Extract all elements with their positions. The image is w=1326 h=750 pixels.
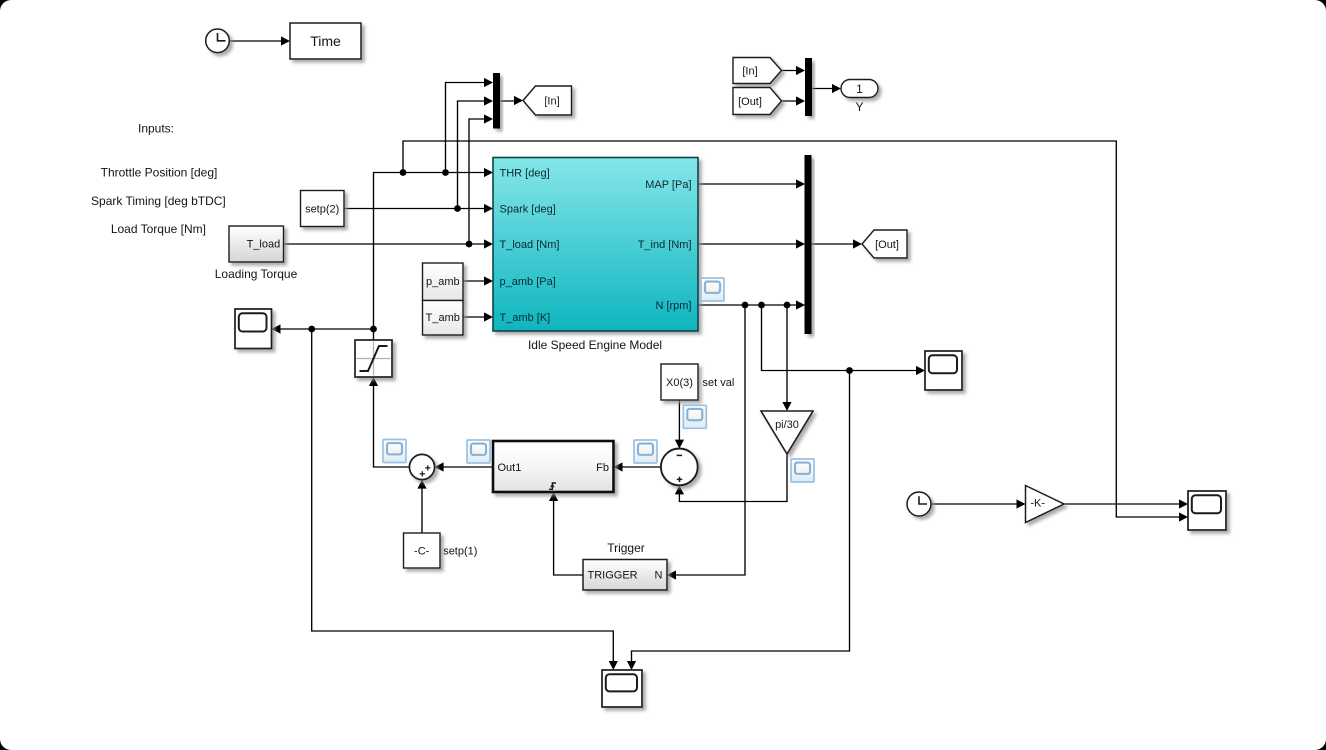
- node N junction 3: [784, 302, 791, 309]
- wire pi/30 to Sum2 plus input: [679, 454, 787, 502]
- wire N rpm to Mux3: [698, 304, 803, 306]
- wire MAP to Mux3: [698, 183, 803, 185]
- block Time display: [290, 23, 361, 59]
- svg-text:Idle Speed Engine Model: Idle Speed Engine Model: [528, 338, 662, 352]
- subsystem TRIGGER: [583, 560, 667, 591]
- wire throttle down to bottom scope: [312, 329, 614, 668]
- mux Mux2: [805, 58, 812, 116]
- wire Mux3 to Goto [Out]: [812, 243, 861, 245]
- viewer badge 1: [383, 440, 406, 463]
- wire p_amb to engine: [463, 280, 491, 282]
- svg-text:-K-: -K-: [1030, 498, 1045, 510]
- mux Mux3: [805, 155, 812, 334]
- node throttle-to-mux junction: [442, 169, 449, 176]
- svg-text:-C-: -C-: [414, 546, 430, 558]
- viewer badge 2: [467, 440, 490, 463]
- wire saturation output up to THR input: [374, 173, 492, 341]
- wire gain -K- to Scope3: [1064, 503, 1186, 505]
- svg-text:[Out]: [Out]: [738, 96, 762, 108]
- node spark-to-mux junction: [454, 205, 461, 212]
- wire Mux1 to Goto [In]: [500, 100, 521, 102]
- wire tload to Mux1 input3: [469, 119, 491, 244]
- wire branch to Scope1: [273, 328, 374, 330]
- subsystem Idle Speed Engine Model: [493, 158, 698, 332]
- mux Mux1: [493, 73, 500, 129]
- svg-text:Spark [deg]: Spark [deg]: [500, 203, 556, 215]
- svg-text:T_load: T_load: [247, 238, 281, 250]
- constant X0(3): [661, 364, 698, 400]
- svg-text:setp(2): setp(2): [305, 204, 339, 216]
- svg-text:Throttle Position [deg]: Throttle Position [deg]: [101, 166, 218, 180]
- wire X0(3) to Sum2 minus input: [678, 400, 680, 447]
- node throttle-to-bottom junction: [308, 326, 315, 333]
- scope Scope1: [235, 309, 272, 349]
- from tag [In]: [733, 58, 782, 84]
- wire setp(2) to Spark input: [344, 208, 491, 210]
- constant T_amb: [423, 301, 464, 336]
- wire Mux2 to outport Y: [812, 88, 839, 90]
- node N junction 1: [742, 302, 749, 309]
- gain -K-: [1026, 486, 1065, 523]
- wire throttle to Mux1 input1: [446, 83, 492, 173]
- wire Out1 to Sum1: [437, 466, 493, 468]
- svg-text:Spark Timing [deg bTDC]: Spark Timing [deg bTDC]: [91, 194, 226, 208]
- node tload-to-mux junction: [466, 241, 473, 248]
- scope Scope4 bottom: [602, 670, 642, 707]
- svg-text:Inputs:: Inputs:: [138, 122, 174, 136]
- wire N to Scope2: [762, 305, 924, 371]
- wire N down to bottom scope: [632, 371, 850, 669]
- wire clock2 to gain -K-: [931, 503, 1024, 505]
- saturation block: [355, 340, 392, 377]
- svg-text:T_ind [Nm]: T_ind [Nm]: [638, 239, 692, 251]
- viewer badge 3: [634, 440, 657, 463]
- clock Clock2: [907, 492, 931, 516]
- node N-scope branch junction: [846, 367, 853, 374]
- svg-text:[Out]: [Out]: [875, 239, 899, 251]
- wire clock1 to Time: [229, 40, 288, 42]
- svg-text:T_amb [K]: T_amb [K]: [500, 312, 551, 324]
- viewer badge 4: [683, 405, 706, 428]
- svg-text:N: N: [655, 570, 663, 582]
- constant p_amb: [423, 263, 464, 301]
- svg-text:setp(1): setp(1): [443, 546, 477, 558]
- wire -C- to Sum1 plus input: [421, 482, 423, 533]
- svg-text:TRIGGER: TRIGGER: [588, 570, 638, 582]
- goto tag [Out]: [862, 230, 907, 258]
- svg-text:1: 1: [856, 82, 863, 96]
- sum Sum2: [661, 449, 698, 486]
- sum Sum1: [409, 454, 434, 479]
- wire From [In] to Mux2: [782, 70, 804, 72]
- wire T_load to T_load input: [284, 243, 492, 245]
- svg-text:[In]: [In]: [742, 66, 757, 78]
- from tag [Out]: [733, 88, 782, 115]
- svg-text:set val: set val: [703, 377, 735, 389]
- svg-text:X0(3): X0(3): [666, 377, 693, 389]
- viewer badge 6: [701, 278, 724, 301]
- outport Y: [841, 80, 878, 98]
- svg-text:Trigger: Trigger: [607, 541, 645, 555]
- subsystem controller Out1/Fb: [493, 441, 614, 492]
- wire Sum1 to saturation: [374, 379, 410, 467]
- svg-text:N [rpm]: N [rpm]: [655, 300, 691, 312]
- svg-text:Out1: Out1: [498, 462, 522, 474]
- node N junction 2: [758, 302, 765, 309]
- svg-text:THR [deg]: THR [deg]: [500, 167, 550, 179]
- wire spark to Mux1 input2: [458, 101, 492, 209]
- svg-text:Time: Time: [310, 33, 341, 49]
- node saturation-output junction: [370, 326, 377, 333]
- trigger port glyph: [549, 483, 556, 489]
- gain pi/30: [761, 411, 813, 454]
- svg-text:[In]: [In]: [544, 96, 559, 108]
- block T_load (Loading Torque): [229, 226, 284, 262]
- svg-text:MAP [Pa]: MAP [Pa]: [645, 179, 691, 191]
- svg-text:p_amb [Pa]: p_amb [Pa]: [500, 276, 556, 288]
- svg-text:Loading Torque: Loading Torque: [215, 267, 298, 281]
- node throttle feedback junction: [400, 169, 407, 176]
- svg-text:Load Torque [Nm]: Load Torque [Nm]: [111, 222, 206, 236]
- wire From [Out] to Mux2: [782, 100, 804, 102]
- svg-text:T_load [Nm]: T_load [Nm]: [500, 239, 560, 251]
- svg-text:Y: Y: [855, 100, 863, 114]
- wire Sum2 to Fb input: [616, 466, 661, 468]
- wire throttle feedback to right scope: [403, 141, 1186, 517]
- svg-text:pi/30: pi/30: [775, 419, 799, 431]
- clock Clock1: [206, 29, 230, 53]
- wire TRIGGER to controller trigger port: [554, 494, 583, 575]
- constant -C-: [404, 533, 441, 568]
- wire T_amb to engine: [463, 316, 491, 318]
- constant setp(2): [301, 191, 345, 227]
- svg-text:T_amb: T_amb: [426, 312, 460, 324]
- goto tag [In]: [523, 86, 572, 115]
- wire N down to TRIGGER block: [669, 305, 745, 575]
- svg-text:Fb: Fb: [596, 462, 609, 474]
- svg-text:p_amb: p_amb: [426, 276, 460, 288]
- viewer badge 5: [791, 459, 814, 482]
- wire N down to pi/30 gain: [786, 305, 788, 409]
- wire T_ind to Mux3: [698, 243, 803, 245]
- scope Scope2: [925, 351, 962, 390]
- scope Scope3: [1188, 491, 1226, 530]
